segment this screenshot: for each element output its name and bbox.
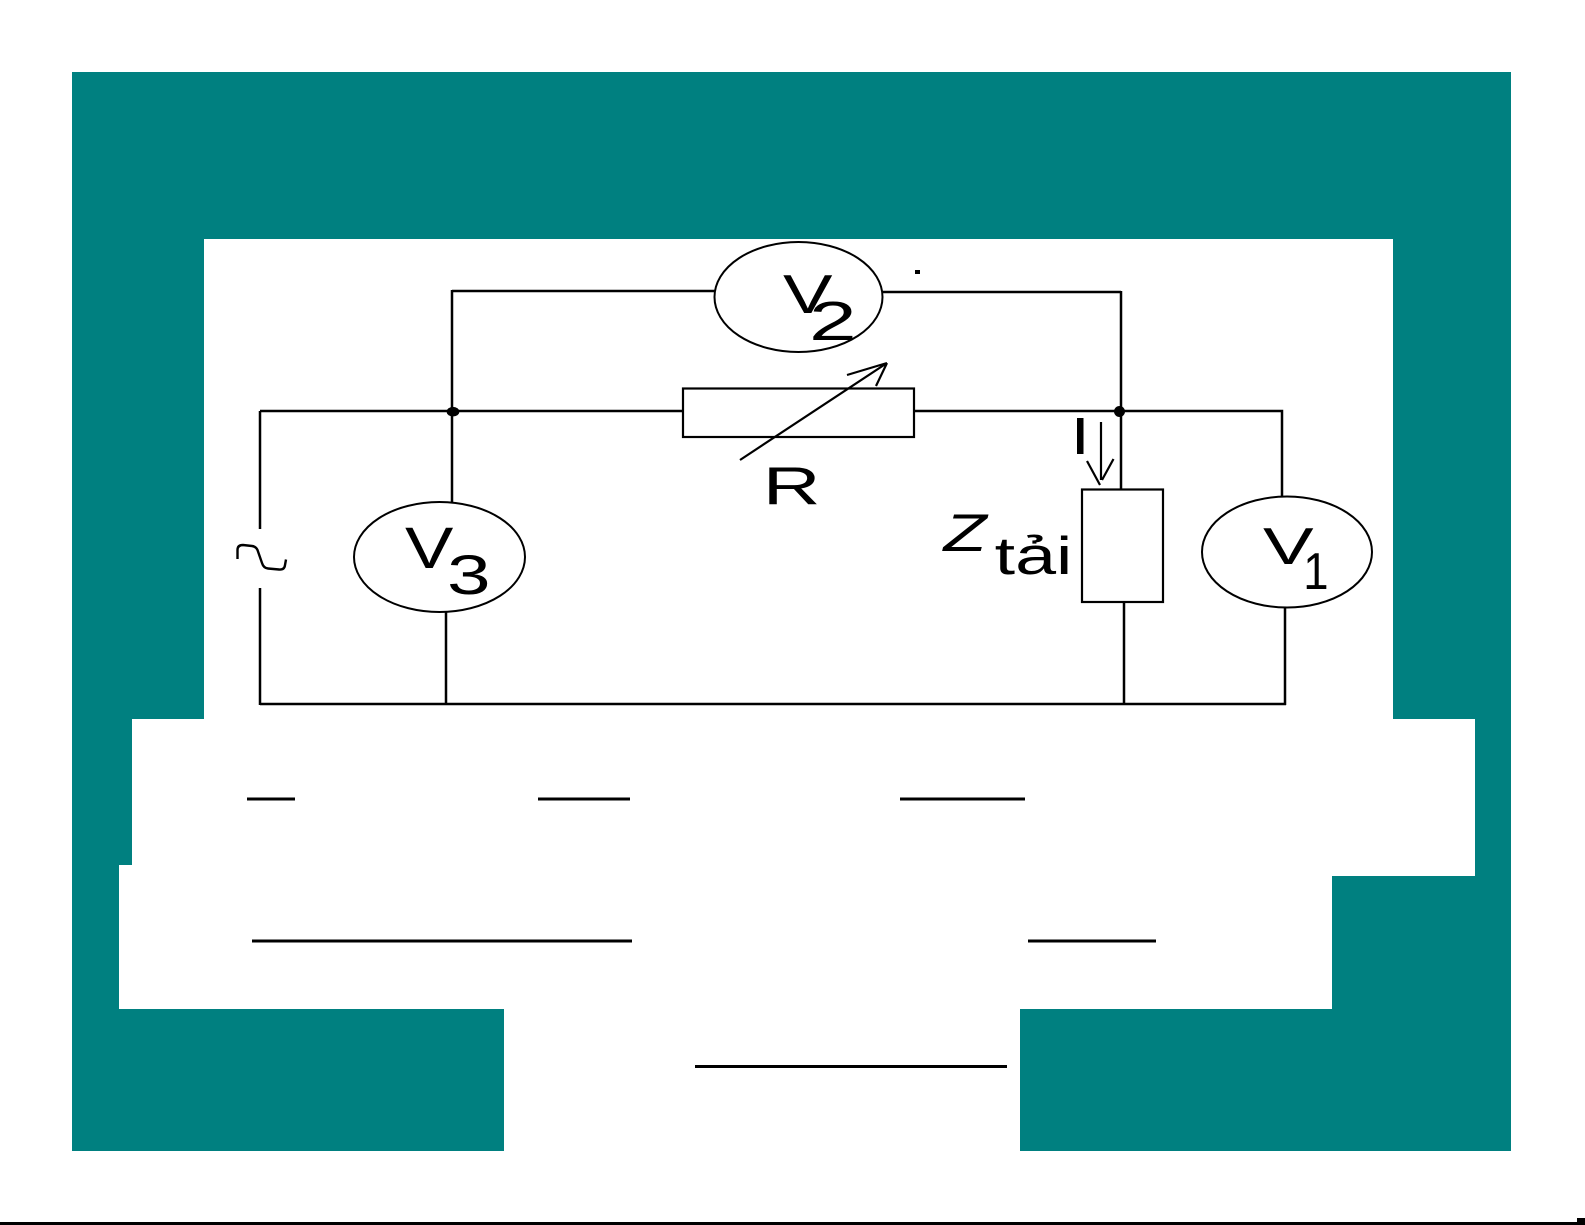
node B junction dot xyxy=(1114,406,1125,417)
formula bar row2 short xyxy=(1028,940,1156,943)
label I current xyxy=(1077,418,1084,454)
svg-text:Z: Z xyxy=(941,504,988,563)
formula bar row3 xyxy=(695,1065,1007,1068)
bottom rule right nub xyxy=(1577,1218,1585,1225)
wire Z bottom xyxy=(1123,602,1126,705)
AC source squiggle xyxy=(238,545,287,570)
white text box D xyxy=(504,1009,1020,1225)
wire top-left horizontal xyxy=(452,290,716,293)
label V1 xyxy=(1263,517,1329,601)
stray dot near V2 xyxy=(915,270,920,274)
svg-text:1: 1 xyxy=(1303,543,1328,600)
teal slide background xyxy=(72,72,1511,1151)
formula bar row2 long xyxy=(252,940,632,943)
wire middle-right horizontal with V1 corner xyxy=(914,411,1282,497)
bottom page rule xyxy=(0,1222,1585,1225)
wire left vertical through node A xyxy=(451,290,454,503)
resistor R variable arrow xyxy=(740,363,887,460)
svg-text:R: R xyxy=(763,457,821,516)
load Z box xyxy=(1082,490,1163,603)
voltmeter V1 ellipse xyxy=(1202,497,1372,608)
svg-text:tải: tải xyxy=(995,526,1073,585)
label V2 xyxy=(783,263,857,352)
node A junction dot xyxy=(447,407,460,417)
svg-text:2: 2 xyxy=(809,291,857,352)
white text box A (circuit area) xyxy=(204,239,1393,719)
voltmeter V3 ellipse xyxy=(354,502,525,612)
svg-text:3: 3 xyxy=(447,544,491,606)
formula fraction bar row1 c xyxy=(900,798,1025,801)
wire source bottom stub xyxy=(259,588,262,705)
wire bottom horizontal xyxy=(260,703,1286,706)
wire V1 bottom xyxy=(1284,606,1287,705)
white text box B xyxy=(132,719,1475,876)
voltmeter V2 ellipse xyxy=(715,242,883,352)
white text box C xyxy=(119,865,1332,1009)
formula fraction bar row1 a xyxy=(247,798,295,801)
current I arrow xyxy=(1087,422,1114,485)
wire Z top branch xyxy=(1120,412,1123,491)
wire right corner vertical xyxy=(1120,291,1123,412)
resistor R box xyxy=(683,389,914,438)
wire top-right horizontal xyxy=(881,291,1121,294)
label V3 xyxy=(405,516,491,606)
wire V3 bottom xyxy=(445,612,448,705)
wire middle-left horizontal xyxy=(260,410,683,413)
formula fraction bar row1 b xyxy=(538,798,630,801)
wire source top stub xyxy=(259,411,262,529)
